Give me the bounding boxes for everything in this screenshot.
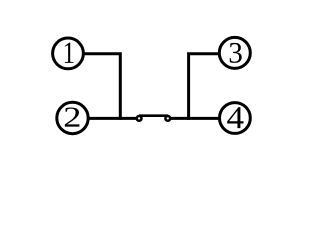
label 2	[65, 107, 80, 126]
terminal circle 3	[219, 37, 250, 68]
wire from terminal 3 left then down to bottom bus	[189, 54, 221, 120]
label 4	[227, 107, 243, 128]
switch contact right (small open circle)	[165, 116, 170, 121]
wire from terminal 1 right then down to bottom bus	[84, 54, 120, 120]
label 3	[230, 43, 242, 63]
switch contact left (small open circle)	[137, 116, 142, 121]
terminal circle 2	[57, 102, 88, 133]
label 1	[65, 42, 74, 62]
terminal circle 4	[220, 103, 251, 134]
wire from terminal 2 to switch left contact	[86, 117, 137, 120]
wire from switch right contact to terminal 4	[170, 117, 221, 120]
switch link bar (closed)	[139, 114, 168, 117]
terminal circle 1	[53, 38, 84, 69]
